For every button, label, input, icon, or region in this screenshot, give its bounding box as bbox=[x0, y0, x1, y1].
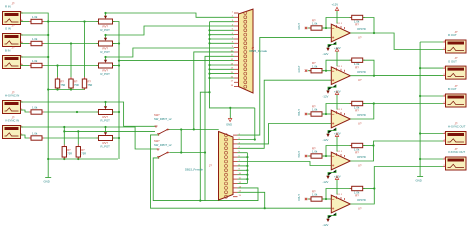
junction DB15 gnd bus bbox=[246, 178, 248, 180]
op-amp U3 triangle bbox=[331, 110, 350, 128]
wire: jack ground stub bbox=[420, 67, 443, 69]
svg-text:+12V: +12V bbox=[334, 46, 341, 50]
wire: SW1 common to opamp U5 IN+ bbox=[151, 135, 332, 208]
wire: J2 tip to bus bbox=[21, 34, 49, 36]
wire: feedback left bbox=[326, 60, 352, 70]
DB15 pin numbers bbox=[239, 134, 242, 198]
svg-text:1.0k: 1.0k bbox=[312, 150, 318, 154]
svg-text:HOUT: HOUT bbox=[298, 150, 301, 157]
svg-text:J?: J? bbox=[12, 23, 15, 27]
wire: DB25 gnd pin stub bbox=[210, 34, 235, 36]
junction row1 termination tap bbox=[83, 20, 85, 22]
svg-text:B IN: B IN bbox=[5, 49, 10, 53]
wire: net to input resistor bbox=[308, 70, 312, 72]
resistor R4 1.0k bbox=[29, 106, 44, 115]
svg-text:1.0k: 1.0k bbox=[32, 15, 38, 19]
junction feedback bbox=[325, 27, 327, 29]
output jack J8 R OUT bbox=[443, 30, 466, 53]
wire: to opamp U4 IN+ bbox=[238, 162, 332, 166]
resistor R19 1.0k feedback bbox=[350, 143, 365, 147]
junction bbox=[77, 130, 79, 132]
svg-text:R?: R? bbox=[61, 80, 65, 84]
svg-text:H-SYNC IN: H-SYNC IN bbox=[5, 94, 19, 98]
svg-text:75R: 75R bbox=[81, 151, 86, 155]
wire: DB25 gnd pin stub bbox=[210, 73, 235, 75]
svg-text:R?: R? bbox=[355, 194, 359, 198]
junction feedback bbox=[325, 70, 327, 72]
junction pot return bbox=[118, 137, 120, 139]
junction V line bbox=[63, 126, 65, 128]
svg-text:R?: R? bbox=[355, 109, 359, 113]
svg-text:-12V: -12V bbox=[323, 180, 329, 184]
junction output/feedback bbox=[373, 75, 375, 77]
wire: DB25 gnd pin stub bbox=[210, 29, 235, 31]
svg-text:1.0k: 1.0k bbox=[312, 108, 318, 112]
wire: input resistor to IN- bbox=[322, 113, 331, 115]
svg-text:+12V: +12V bbox=[332, 3, 339, 7]
junction pot return bbox=[118, 64, 120, 66]
svg-text:B OUT: B OUT bbox=[448, 87, 457, 91]
junction RV5 wiper bbox=[104, 126, 106, 128]
junction bbox=[56, 88, 58, 90]
svg-text:R?: R? bbox=[355, 151, 359, 155]
wire: DB25 ground bus down to GND arm bbox=[210, 22, 255, 108]
power +12V supply U2 bbox=[334, 46, 341, 66]
wire: J4 pin2 to R4 bbox=[21, 110, 30, 112]
svg-text:1.0k: 1.0k bbox=[32, 132, 38, 136]
connector J7 DB15_Female bbox=[219, 132, 238, 201]
junction pot return bbox=[118, 111, 120, 113]
junction GND stub bbox=[229, 107, 231, 109]
net flag GOUT bbox=[305, 70, 307, 72]
wire: J3 pin2 to R3 bbox=[21, 65, 30, 67]
wire: feedback right bbox=[363, 60, 374, 75]
junction gnd bus bbox=[208, 38, 210, 40]
wire: DB15 pin1 to opamp U1 IN+ bbox=[238, 37, 332, 135]
resistor R2 1.0k bbox=[29, 37, 44, 46]
svg-text:DB25_Female: DB25_Female bbox=[249, 49, 267, 53]
wire: V-SYNC tip to SW2 bbox=[21, 127, 159, 149]
wire: SW1 throw to DB15 shell bbox=[168, 129, 219, 131]
wire: jack R ground bbox=[420, 41, 443, 43]
svg-text:G IN: G IN bbox=[5, 27, 11, 31]
svg-text:1.0k: 1.0k bbox=[32, 37, 38, 41]
wire: B signal to DB25 pin9 bbox=[106, 48, 235, 57]
svg-text:J?: J? bbox=[12, 45, 15, 49]
junction RV1 wiper bbox=[104, 12, 106, 14]
junction bus/row1 bbox=[47, 20, 49, 22]
ground symbol GND right bbox=[416, 177, 424, 183]
junction row2 termination tap bbox=[70, 42, 72, 44]
potentiometer RV3 bbox=[97, 57, 115, 76]
op-amp U1 triangle bbox=[331, 24, 350, 42]
resistor R13 1.0k input bbox=[309, 104, 324, 116]
junction gnd bus bbox=[208, 73, 210, 75]
input jack J2 G IN bbox=[3, 23, 24, 46]
resistor R7 75R termination bbox=[69, 77, 79, 90]
switch SW2 SW_DPDT bbox=[157, 149, 170, 159]
wire: J1 pin2 to R1 bbox=[21, 21, 30, 23]
junction ground bus bbox=[419, 158, 421, 160]
wire: input resistor to IN- bbox=[322, 27, 331, 29]
net flag BOUT bbox=[305, 113, 307, 115]
wire: SW2 common to DB15 pin13 bbox=[153, 158, 258, 201]
wire: DB15 ground bus bbox=[246, 153, 248, 184]
junction feedback bbox=[325, 155, 327, 157]
svg-text:75R: 75R bbox=[74, 83, 79, 87]
junction DB15 gnd bus bbox=[246, 165, 248, 167]
svg-text:75R: 75R bbox=[67, 151, 72, 155]
wire: DB15 gnd pin stub bbox=[238, 178, 248, 180]
svg-text:-12V: -12V bbox=[323, 223, 329, 227]
junction GND arm/pin2 bbox=[254, 138, 256, 140]
wire: row3 to termination resistor bbox=[57, 66, 59, 78]
svg-text:SW?: SW? bbox=[154, 139, 160, 143]
junction SW2 throw bbox=[204, 151, 206, 153]
op-amp pin marks bbox=[332, 66, 345, 81]
wire: U4 output to jack bbox=[350, 141, 443, 161]
wire: DB25 pin16 gnd stub bbox=[210, 77, 235, 79]
op-amp pin marks bbox=[332, 194, 345, 209]
svg-text:VOUT: VOUT bbox=[298, 194, 301, 201]
resistor R1 1.0k bbox=[29, 15, 44, 24]
junction riser/feedback bbox=[372, 144, 374, 146]
wire: pot right terminal bbox=[113, 43, 120, 45]
op-amp U5 triangle bbox=[331, 195, 350, 213]
wire: net to input resistor bbox=[308, 155, 312, 157]
output jack J12 V-SYNC OUT bbox=[443, 147, 466, 170]
switch SW1 SW_DPDT bbox=[155, 126, 170, 136]
power -12V supply U2 bbox=[323, 85, 337, 99]
svg-text:R IN: R IN bbox=[5, 5, 11, 9]
wire: U1 output to jack bbox=[350, 33, 443, 50]
wire: DB15 gnd pin stub bbox=[238, 165, 248, 167]
power -12V supply U4 bbox=[323, 170, 337, 184]
power -12V supply U1 bbox=[323, 42, 337, 56]
power -12V supply U3 bbox=[323, 128, 337, 142]
net flag HOUT bbox=[305, 155, 307, 157]
wire: DB15 gnd pin stub bbox=[238, 174, 248, 176]
wire: U2 output to jack bbox=[350, 75, 443, 77]
junction row3 termination tap bbox=[56, 64, 58, 66]
junction gnd bus bbox=[208, 77, 210, 79]
wire: pot return bus bbox=[113, 22, 120, 160]
svg-text:+12V: +12V bbox=[334, 131, 341, 135]
svg-text:OP07D: OP07D bbox=[357, 70, 366, 74]
svg-text:R?: R? bbox=[88, 80, 92, 84]
svg-text:1.0k: 1.0k bbox=[32, 59, 38, 63]
junction bbox=[208, 91, 210, 93]
svg-text:V-SYNC IN: V-SYNC IN bbox=[5, 119, 19, 123]
DB25 pin numbers bbox=[231, 11, 234, 87]
junction RV2 wiper bbox=[104, 34, 106, 36]
potentiometer RV1 bbox=[97, 13, 115, 32]
wire: row1 to termination resistor bbox=[84, 22, 86, 78]
junction bbox=[180, 151, 182, 153]
junction DB15 gnd bus bbox=[246, 174, 248, 176]
resistor R5 1.0k bbox=[29, 132, 44, 141]
power +12V supply U5 bbox=[334, 174, 341, 194]
wire: U5 output to jack bbox=[350, 167, 443, 205]
svg-text:U?: U? bbox=[358, 163, 362, 167]
junction ground bus bbox=[419, 67, 421, 69]
svg-text:R_POT: R_POT bbox=[101, 145, 111, 149]
input jack J3 B IN bbox=[3, 45, 24, 68]
junction bus/termination bus bbox=[47, 88, 49, 90]
output jack J11 H-SYNC OUT bbox=[443, 121, 466, 144]
wire: input resistor to IN- bbox=[322, 155, 331, 157]
svg-text:J?: J? bbox=[209, 164, 212, 168]
junction feedback bbox=[325, 198, 327, 200]
wire: DB15 gnd pin stub bbox=[238, 169, 248, 171]
wire: DB25 sync pin down to DB15 line bbox=[194, 52, 234, 129]
svg-text:BOUT: BOUT bbox=[298, 109, 301, 116]
wire: net to input resistor bbox=[308, 113, 312, 115]
wire: row2 to termination resistor bbox=[70, 44, 72, 78]
svg-text:R?: R? bbox=[74, 80, 78, 84]
wire: feedback right bbox=[363, 145, 374, 147]
wire: pot right terminal bbox=[113, 111, 120, 113]
wire: DB25 gnd pin stub bbox=[210, 64, 235, 66]
wire: DB25 pin3 gnd bbox=[210, 21, 235, 23]
wire: pot right terminal bbox=[113, 137, 120, 139]
resistor R12 1.0k input bbox=[309, 61, 324, 73]
junction RV4 wiper bbox=[104, 101, 106, 103]
op-amp U2 triangle bbox=[331, 67, 350, 85]
junction gnd bus bbox=[208, 42, 210, 44]
wire: V line to R9 bbox=[63, 127, 65, 145]
wire: input resistor to IN- bbox=[322, 198, 331, 200]
svg-text:J?: J? bbox=[12, 1, 15, 5]
wire: DB15 gnd pin stub bbox=[238, 156, 248, 158]
potentiometer RV2 bbox=[97, 35, 115, 54]
junction bbox=[63, 158, 65, 160]
wire: J2 pin2 to R2 bbox=[21, 43, 30, 45]
input jack J5 V-SYNC IN bbox=[3, 115, 24, 138]
svg-text:V-SYNC OUT: V-SYNC OUT bbox=[448, 150, 465, 154]
wire: R4 to RV4 bbox=[44, 111, 99, 113]
svg-text:G OUT: G OUT bbox=[448, 59, 457, 63]
resistor R14 1.0k input bbox=[309, 146, 324, 158]
wire: DB15 pin14 to U5 IN+ line bbox=[238, 192, 265, 208]
input jack J4 H-SYNC IN bbox=[3, 90, 24, 113]
wire: DB25 gnd pin stub bbox=[210, 68, 235, 70]
junction SW1 throw line bbox=[193, 128, 195, 130]
wire: J5 pin2 to R5 bbox=[21, 135, 30, 138]
svg-text:OP07D: OP07D bbox=[357, 198, 366, 202]
svg-text:R?: R? bbox=[81, 148, 85, 152]
op-amp pin marks bbox=[332, 109, 345, 124]
wire: GND arm down to DB15 pin2 line bbox=[254, 108, 256, 140]
wire: J1 tip down left ground bus bbox=[21, 13, 49, 178]
wire: J3 tip to bus bbox=[21, 56, 49, 58]
resistor R9 75R sync termination bbox=[62, 145, 72, 160]
wire: pot return to DB25 pin12 bbox=[119, 60, 234, 62]
junction bbox=[70, 88, 72, 90]
svg-text:OP07D: OP07D bbox=[357, 155, 366, 159]
wire: jack ground stub bbox=[420, 133, 443, 135]
junction bottom line bbox=[199, 200, 201, 202]
junction DB15 gnd bus bbox=[246, 156, 248, 158]
svg-text:R OUT: R OUT bbox=[448, 33, 457, 37]
junction pot return bbox=[118, 42, 120, 44]
wire: ground branch down bbox=[200, 92, 209, 200]
power -12V supply U5 bbox=[323, 213, 337, 227]
svg-text:75R: 75R bbox=[88, 83, 93, 87]
wire: down to R10 bbox=[77, 131, 79, 144]
connector J6 DB25_Female bbox=[234, 9, 253, 93]
junction RV3 wiper bbox=[104, 56, 106, 58]
svg-text:R_POT: R_POT bbox=[101, 72, 111, 76]
svg-text:1.0k: 1.0k bbox=[32, 106, 38, 110]
resistor R6 75R termination bbox=[82, 77, 92, 90]
svg-text:U?: U? bbox=[358, 35, 362, 39]
wire: link down bbox=[180, 130, 182, 153]
junction output/feedback bbox=[373, 32, 375, 34]
wire: feedback right bbox=[363, 103, 374, 105]
input jack J1 R IN bbox=[3, 1, 24, 24]
svg-text:GND: GND bbox=[416, 179, 422, 183]
wire: input resistor to IN- bbox=[322, 70, 331, 72]
svg-text:+12V: +12V bbox=[334, 174, 341, 178]
wire: DB25 gnd pin stub bbox=[210, 42, 235, 44]
svg-text:R?: R? bbox=[67, 148, 71, 152]
net flag ROUT bbox=[305, 27, 307, 29]
resistor R15 1.0k input bbox=[309, 189, 324, 201]
svg-text:1.0k: 1.0k bbox=[312, 22, 318, 26]
wire: feedback left bbox=[326, 189, 352, 200]
wire: pivot line to SW1 bbox=[64, 130, 155, 132]
svg-text:U?: U? bbox=[358, 121, 362, 125]
resistor R18 1.0k feedback bbox=[350, 101, 365, 105]
wire: feedback left bbox=[326, 18, 352, 29]
svg-text:+12V: +12V bbox=[334, 89, 341, 93]
wire: right ground bus bbox=[419, 42, 421, 177]
svg-text:SW_DPDT_x2: SW_DPDT_x2 bbox=[154, 117, 172, 121]
junction gnd bus bbox=[208, 68, 210, 70]
power +12V supply U3 bbox=[334, 89, 341, 109]
resistor R16 1.0k feedback bbox=[350, 15, 365, 19]
svg-text:U?: U? bbox=[358, 206, 362, 210]
net flag VOUT bbox=[305, 198, 307, 200]
junction bus/ground bus bbox=[47, 158, 49, 160]
junction gnd bus bbox=[208, 34, 210, 36]
junction bbox=[77, 158, 79, 160]
resistor R20 1.0k feedback bbox=[350, 186, 365, 190]
potentiometer RV4 bbox=[97, 102, 115, 123]
wire: lower ground bus bbox=[48, 158, 118, 160]
wire: R1 to RV1 bbox=[44, 21, 99, 23]
wire: DB15 gnd pin stub bbox=[238, 152, 248, 154]
junction riser/feedback bbox=[373, 102, 375, 104]
junction gnd bus bbox=[208, 29, 210, 31]
svg-text:-12V: -12V bbox=[323, 138, 329, 142]
svg-text:R?: R? bbox=[355, 65, 359, 69]
svg-text:DB15_Female: DB15_Female bbox=[185, 168, 203, 172]
wire: jack ground stub bbox=[420, 95, 443, 97]
junction pot return/DB25 bbox=[118, 60, 120, 62]
junction ground bus bbox=[419, 132, 421, 134]
wire: U3 output to jack bbox=[350, 104, 443, 120]
wire: R signal to DB25 pin2 bbox=[106, 13, 235, 17]
junction bus/J3 tip bbox=[47, 56, 49, 58]
svg-text:H-SYNC OUT: H-SYNC OUT bbox=[448, 125, 466, 129]
wire: net to input resistor bbox=[308, 198, 312, 200]
svg-text:SW_DPDT_x2: SW_DPDT_x2 bbox=[154, 143, 172, 147]
wire: jack ground stub bbox=[420, 158, 443, 160]
resistor R11 1.0k input bbox=[309, 18, 324, 30]
wire: feedback left bbox=[326, 104, 352, 115]
power +12V supply U1 bbox=[332, 3, 339, 24]
wire: to opamp U2 IN+ bbox=[238, 80, 332, 148]
junction bbox=[63, 130, 65, 132]
wire: DB15 gnd pin stub bbox=[238, 183, 248, 185]
wire: SW2 throw bbox=[170, 152, 206, 154]
wire: pot right terminal bbox=[113, 65, 120, 67]
op-amp U4 triangle bbox=[331, 152, 350, 170]
wire: DB15 pin2 stub line bbox=[238, 139, 255, 141]
op-amp pin marks bbox=[332, 23, 345, 38]
output jack J10 B OUT bbox=[443, 84, 466, 107]
junction bbox=[180, 128, 182, 130]
junction U5 IN+ bbox=[264, 207, 266, 209]
op-amp pin marks bbox=[332, 151, 345, 166]
svg-text:GND: GND bbox=[226, 122, 232, 126]
output jack J9 G OUT bbox=[443, 56, 466, 79]
power +12V supply U4 bbox=[334, 131, 341, 151]
wire: termination ground bus bbox=[48, 89, 84, 91]
svg-text:OP07D: OP07D bbox=[357, 27, 366, 31]
wire: R3 to RV3 bbox=[44, 65, 99, 67]
junction row4 bbox=[76, 111, 78, 113]
svg-text:R?: R? bbox=[355, 23, 359, 27]
svg-text:GND: GND bbox=[44, 180, 50, 184]
junction bus/J2 tip bbox=[47, 34, 49, 36]
resistor R10 75R sync termination bbox=[76, 145, 86, 160]
junction ground bus bbox=[419, 95, 421, 97]
wire: DB25 gnd pin stub bbox=[210, 38, 235, 40]
svg-text:R_POT: R_POT bbox=[101, 28, 111, 32]
resistor R3 1.0k bbox=[29, 59, 44, 68]
svg-text:SW?: SW? bbox=[154, 113, 160, 117]
wire: R2 to RV2 bbox=[44, 43, 99, 45]
svg-text:GOUT: GOUT bbox=[298, 65, 301, 72]
potentiometer RV5 bbox=[97, 127, 115, 149]
wire: R5 to RV5 bbox=[44, 137, 99, 139]
svg-text:1.0k: 1.0k bbox=[312, 193, 318, 197]
wire: feedback right bbox=[363, 188, 374, 190]
wire: feedback right bbox=[363, 18, 374, 34]
svg-text:1.0k: 1.0k bbox=[312, 64, 318, 68]
ground symbol GND middle (supply arrow) bbox=[226, 108, 232, 126]
svg-text:U?: U? bbox=[358, 78, 362, 82]
junction gnd bus bbox=[208, 64, 210, 66]
ground symbol GND left bbox=[44, 178, 52, 184]
junction riser/feedback bbox=[373, 187, 375, 189]
wire: to opamp U3 IN+ bbox=[238, 124, 332, 144]
svg-text:ROUT: ROUT bbox=[298, 22, 301, 29]
svg-text:-12V: -12V bbox=[323, 52, 329, 56]
wire: DB25 sync pin down via SW2 throw bbox=[205, 56, 234, 200]
wire: net to input resistor bbox=[308, 27, 312, 29]
resistor R8 75R termination bbox=[55, 77, 65, 90]
svg-text:R_POT: R_POT bbox=[101, 119, 111, 123]
svg-text:75R: 75R bbox=[61, 83, 66, 87]
wire: G signal to DB25 pin4 bbox=[106, 26, 235, 35]
resistor R17 1.0k feedback bbox=[350, 58, 365, 62]
wire: H-SYNC tip to SW1 bbox=[21, 102, 156, 126]
wire: feedback left bbox=[326, 146, 352, 157]
